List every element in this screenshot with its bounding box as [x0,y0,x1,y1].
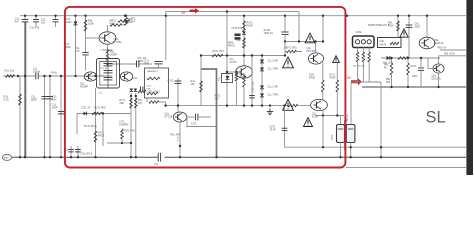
junction [200,54,202,56]
wire T101 drop [165,102,167,106]
wire Q107 emitter [322,63,324,81]
resistor R123 [243,38,246,48]
svg-text:-R1TL PK(L): -R1TL PK(L) [84,125,98,128]
resistor R101 fusible [6,75,15,78]
wire bottom ground rail [10,156,466,158]
capacitor C114 [175,81,182,83]
resistor R102 0.15 [19,94,22,105]
label R126 [309,74,316,80]
wire R117 leg [130,93,132,157]
svg-text:PK0.5: PK0.5 [228,45,235,48]
resistor R113 [94,131,97,142]
wire R603 legd [391,75,393,87]
junction [60,156,62,158]
wire resistor R103 leg [85,16,87,52]
wire R122 leg [236,81,238,106]
wire Q104 collector link [187,116,195,118]
label Q106 [232,27,243,30]
wire C115 out [199,116,211,118]
wire C602 legd [420,70,422,87]
junction [70,156,72,158]
resistor R130 pin1 [356,52,359,62]
resistor R108 [118,20,130,23]
resistor R118 [135,98,138,108]
resistor R604 [407,63,410,75]
resistor R114 [92,112,102,115]
junction [130,142,132,144]
diode D601 [387,56,390,60]
wire snubber drop [200,56,202,106]
svg-text:HS1F: HS1F [65,45,72,49]
junction [243,54,245,56]
node 2.5V arrow (red) [351,78,362,85]
label PA101 [52,71,59,75]
capacitor C108 [82,53,88,55]
label U102 vertical [219,76,221,81]
junction [43,156,45,158]
wire 2.5V link [351,81,381,83]
label CN601 [356,31,363,34]
junction [19,156,21,158]
svg-text:P2W: P2W [388,25,394,28]
label R110 [191,79,196,86]
junction [60,75,62,77]
highlight box (red) [65,7,346,168]
svg-text:R1L 1k2: R1L 1k2 [5,69,15,73]
label Q601 [434,39,444,45]
svg-text:R1TL PK5: R1TL PK5 [95,107,107,110]
junction [130,156,132,158]
junction [314,40,316,42]
label R119 [124,130,136,133]
transformer core line [201,69,217,157]
wire CN601 pin2 drop [362,62,364,82]
junction [322,15,324,17]
label C114 [168,79,175,83]
wire +5V out [440,49,466,51]
junction [346,15,348,17]
transistor Q105 [236,66,253,78]
resistor R117 [130,98,133,108]
label C113 [144,61,150,66]
label R103 [88,19,94,26]
svg-text:5K6: 5K6 [386,81,391,84]
svg-text:C1L 2-3R: C1L 2-3R [268,60,278,63]
junction [284,54,286,56]
wire C120 bot [284,34,286,41]
svg-text:100k: 100k [88,22,94,26]
junction [177,104,179,106]
wire clamp drop [322,16,324,42]
svg-text:KC273: KC273 [230,62,238,64]
junction [179,145,181,147]
svg-text:B+: B+ [182,11,186,15]
svg-text:10n: 10n [41,21,46,25]
wire upper loop net [166,12,299,60]
junction [35,15,37,17]
capacitor C602 [418,68,424,70]
capacitor C118 Y-cap [158,153,160,162]
svg-text:330F: 330F [415,26,421,29]
label C106 [52,95,57,102]
junction [284,40,286,42]
svg-text:C1L 2-3R: C1L 2-3R [268,86,278,89]
junction [243,54,245,56]
junction [269,104,271,106]
junction [407,86,409,88]
wire R604 legd [407,75,409,87]
label R107 [65,42,72,49]
svg-text:1F 4V: 1F 4V [270,129,277,132]
node B+ label (red) [182,11,186,15]
junction [24,75,26,77]
label R109 [131,17,136,24]
svg-text:CN6L: CN6L [356,31,363,34]
label R124 [284,47,297,50]
svg-text:TML 1V: TML 1V [347,114,349,122]
label test point TP1 [178,136,180,141]
logo SL [426,109,446,127]
wire C120 drop [284,16,286,32]
resistor R603 [390,63,393,75]
label C105 [31,95,37,102]
label R605 [386,78,391,84]
label C117 [81,154,93,156]
capacitor C107 [58,112,64,114]
svg-text:C1TL 1F: C1TL 1F [81,107,91,110]
junction [121,142,123,144]
wire T101 bottom tap [146,98,148,102]
wire cap C103 leads [55,16,57,27]
junction [322,114,324,116]
label R604 [411,65,418,68]
label R127 [330,74,337,80]
junction [74,75,76,77]
svg-text:10n: 10n [52,98,57,102]
junction [43,75,45,77]
label R102 [4,95,10,102]
resistor R125 series [288,104,298,107]
svg-text:PK05: PK05 [309,77,316,80]
svg-text:TRANS2PT: TRANS2PT [147,70,159,73]
label R108 [110,19,117,26]
svg-text:2.5V: 2.5V [345,76,352,80]
label C601 [415,23,421,29]
wire base drive net [108,63,153,65]
wire Q601 leg [426,16,428,37]
junction [322,40,324,42]
label C119 vertical [252,81,255,92]
label D101 [66,17,73,24]
svg-text:R4L: R4L [237,39,242,42]
wire output node [315,115,346,117]
label Q102 [80,82,88,89]
svg-text:IC6L: IC6L [380,41,386,43]
svg-text:GND: GND [4,158,9,160]
svg-text:C1L 4F: C1L 4F [101,68,109,70]
junction [226,104,228,106]
label R105 [128,17,133,24]
label pin resistors [353,66,366,68]
svg-text:SL: SL [426,109,446,127]
resistor R132 pin3 [368,52,371,62]
junction [397,15,399,17]
capacitor C122 electrolytic [346,125,355,143]
svg-text:0.15: 0.15 [4,98,10,102]
wire C121 lead [340,143,342,158]
label header [368,24,390,27]
capacitor C126 [282,128,288,130]
svg-text:C1L: C1L [154,163,159,166]
capacitor C112 [137,61,139,68]
wire R119 drop [121,139,123,143]
svg-text:C1L TVR1: C1L TVR1 [268,94,280,97]
svg-text:P85 +5V: P85 +5V [438,48,447,50]
transformer T101 block [145,68,169,98]
svg-text:C1TL 47F: C1TL 47F [252,81,255,92]
capacitor C106 [47,97,53,99]
junction [215,156,217,158]
junction [226,10,228,12]
svg-text:KS24P: KS24P [80,85,88,89]
wire secondary return [346,167,466,169]
label D601 [383,62,393,65]
svg-text:C1T5 8T3: C1T5 8T3 [232,27,243,30]
svg-text:100F 4V: 100F 4V [264,32,274,35]
resistor R111 [212,54,223,57]
wire diode stack [261,56,263,106]
label C125 [119,122,129,127]
wire right section rail [362,86,466,88]
svg-text:+ JUMPER: + JUMPER [100,49,113,52]
capacitor C103 [53,20,59,22]
svg-text:C1L 1F: C1L 1F [101,61,109,63]
label R120 [247,22,254,28]
wire diode D101 leg [75,16,77,76]
wire R124 drop [284,42,286,56]
label R115 [84,125,98,128]
label R122 [240,73,247,79]
wire main top rail B+ [20,15,466,17]
svg-text:PK05: PK05 [330,77,337,80]
label R128 [215,95,222,101]
junction [226,71,228,73]
label R111 [213,50,225,53]
wire R124 stub [285,51,302,53]
junction [106,63,108,65]
IC U101 outline [97,59,120,89]
svg-text:DEC396: DEC396 [432,78,442,81]
resistor R104 [110,24,122,27]
wire Q107 collector [315,42,317,54]
junction [350,156,352,158]
label D106 [268,68,280,71]
label R113 [98,132,105,138]
warning triangle W7 [304,118,313,127]
capacitor C102 [33,20,39,22]
label R101 [5,69,15,73]
wire base link [227,71,238,73]
junction [24,15,26,17]
svg-text:10mH: 10mH [33,70,40,74]
label R106 [110,50,117,57]
transistor Q104 [173,112,187,122]
wire Q104 emitter [179,122,181,157]
diode D107 [260,86,264,89]
wire Q602 coll [438,56,440,64]
svg-text:R1TL 4R7: R1TL 4R7 [213,50,225,53]
wire R118 leg [135,93,137,157]
svg-text:SMPS/TIME ASY P: SMPS/TIME ASY P [368,24,390,27]
svg-text:C1L TVR1: C1L TVR1 [268,68,280,71]
svg-text:R6TL: R6TL [411,65,418,68]
junction [49,156,51,158]
label R123 [237,39,242,42]
label C104 [33,67,40,74]
wire T101 out [159,101,166,103]
svg-text:47F: 47F [75,49,80,53]
capacitor bank C109-C111 [104,59,113,89]
capacitor C120 [281,32,288,34]
wire C122 lead [350,143,352,158]
wire reg out [381,57,440,59]
diode D101 [73,22,77,25]
label C123 vertical [347,114,349,122]
wire R604 legs [407,58,409,63]
junction [339,156,341,158]
junction [380,156,382,158]
junction [165,15,167,17]
label C102 [30,26,40,30]
wire C116 lead [70,146,72,157]
junction [420,57,422,59]
diode D106 [260,68,264,71]
svg-text:Q1L: Q1L [133,76,138,80]
transistor Q101 [99,32,116,44]
label C115 [191,123,198,126]
label C111 [101,75,106,77]
svg-text:4.2V: 4.2V [178,136,180,141]
label R116 [147,91,160,94]
diode D105 [260,60,264,63]
wire C126 drop [284,106,286,148]
svg-text:R1TL PK5: R1TL PK5 [124,130,136,133]
junction [130,95,132,97]
svg-text:PK05: PK05 [98,135,105,138]
junction [94,112,96,114]
svg-text:683F: 683F [31,98,37,102]
wire AC input line [3,75,112,77]
label Q105 [228,42,235,48]
label C109 [101,61,109,63]
svg-text:KTC28: KTC28 [165,116,173,119]
label C116 [64,150,69,152]
label C118 [154,163,159,166]
junction [124,15,126,17]
label Q107 link [307,47,318,53]
junction [426,15,428,17]
svg-text:C1TL: C1TL [191,123,198,126]
wire CN601 pin3 [368,48,370,53]
transistor Q107 [308,53,323,64]
label C108 [75,46,80,53]
label R114 [95,107,107,110]
connector CN601 [353,36,375,48]
wire snubber net [201,55,285,57]
label D108 [268,94,280,97]
svg-text:C1L: C1L [64,150,69,152]
resistor R105 [125,18,128,26]
capacitor C117 [75,150,81,152]
svg-text:C6TL: C6TL [412,75,419,78]
label R603 [384,64,389,70]
svg-text:JUMPER: JUMPER [119,125,129,127]
svg-text:KRA11S: KRA11S [434,42,444,45]
wire C114 lead [177,78,179,112]
junction [135,156,137,158]
svg-text:C1TL 1F/1V: C1TL 1F/1V [147,91,160,94]
resistor R131 pin2 [362,52,365,62]
label C101 [15,17,20,24]
diode D109 [242,32,246,35]
label D102 [81,107,91,110]
svg-text:C1TL: C1TL [168,79,175,83]
wire C601 leg [408,16,410,58]
junction [283,104,285,106]
resistor R120 [243,21,246,32]
highlight box edge over caps (red) [344,120,346,150]
wire C121 drop [322,116,324,148]
svg-text:4n7: 4n7 [15,20,20,24]
label Q602 [432,75,442,81]
junction [243,15,245,17]
label C107 [52,103,58,110]
transistor Q108 [311,99,328,110]
svg-text:R6L R6L R6L: R6L R6L R6L [353,66,366,68]
svg-text:KTC62: KTC62 [114,40,123,44]
junction [284,15,286,17]
capacitor C105 [42,97,48,99]
resistor R119 [121,129,124,139]
wire C101 top lead [24,16,26,20]
junction [243,104,245,106]
label R112 [171,134,181,137]
wire R120 drop [243,16,245,66]
wire R602 leg [397,16,399,38]
label Q104 [165,113,173,119]
node B+ arrow (red) [190,8,200,14]
wire aux drop2 [102,114,104,147]
junction [437,86,439,88]
wire sense drop [350,82,352,125]
svg-text:P85 +5.3V: P85 +5.3V [444,54,455,56]
wire Q602 emitter [438,73,440,87]
wire opto leg [95,88,97,157]
svg-text:Q1L: Q1L [230,59,235,61]
svg-text:KC28: KC28 [312,116,319,119]
label +5.3V [444,54,455,56]
junction [261,104,263,106]
capacitor C115 [196,114,198,121]
label C112 [138,57,148,63]
wire control net [166,105,311,107]
svg-text:PK05: PK05 [247,25,254,28]
svg-text:R66TL TW1: R66TL TW1 [284,47,297,50]
wire C117 lead [77,146,79,157]
label +5V [438,48,447,50]
svg-text:1N47: 1N47 [66,20,73,24]
junction [235,71,237,73]
